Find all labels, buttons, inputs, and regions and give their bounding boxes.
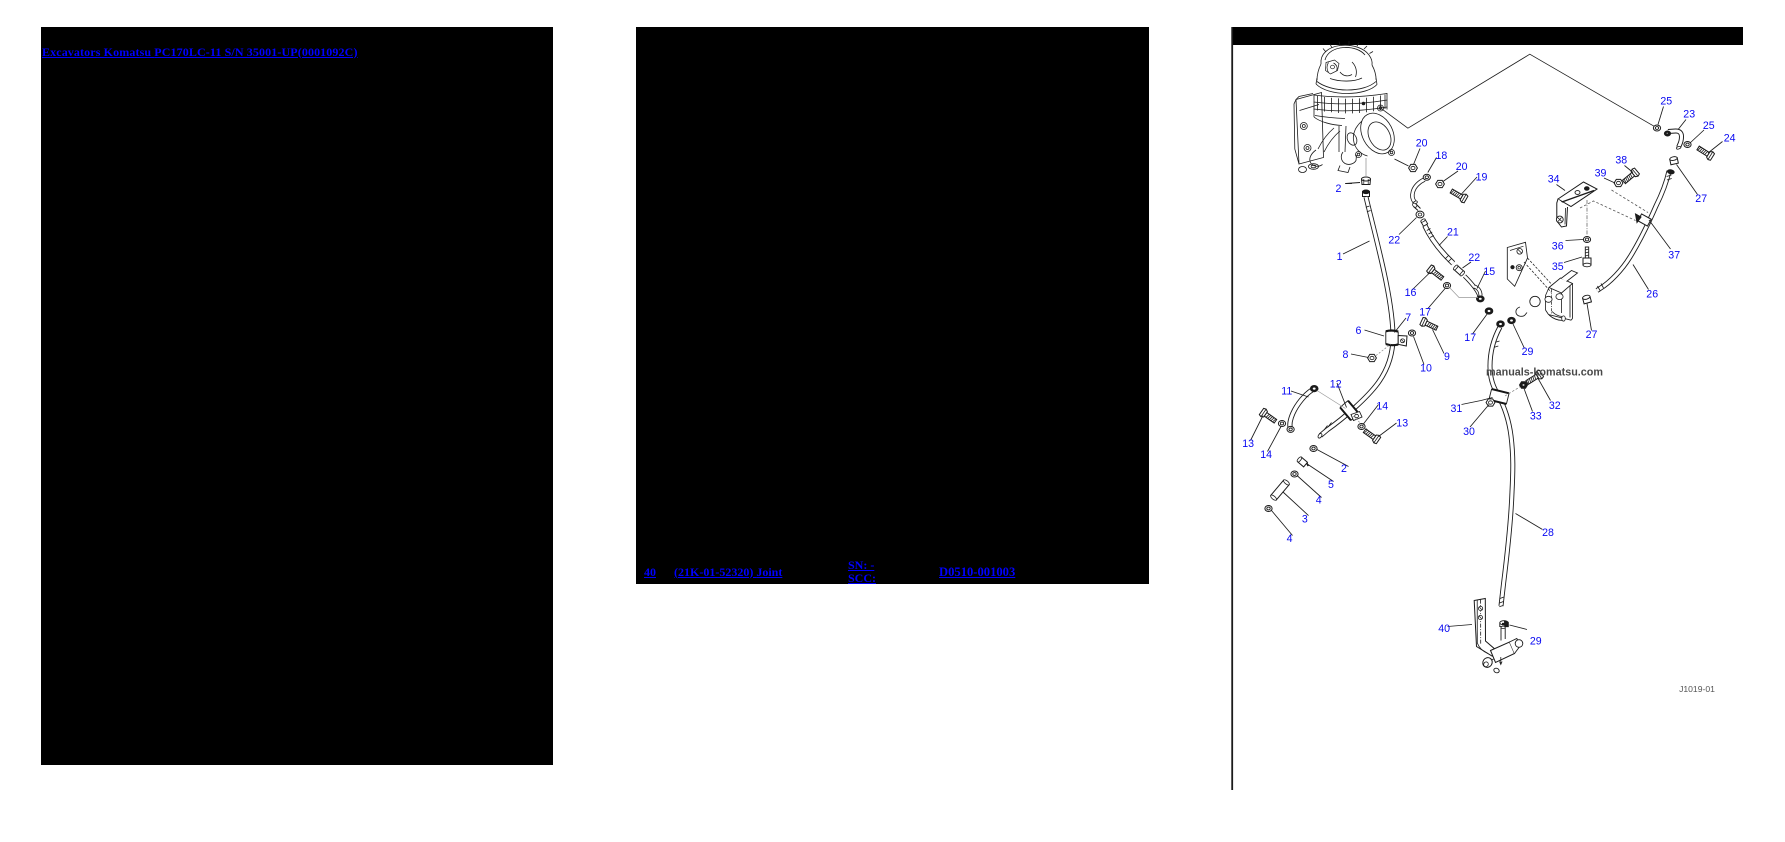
dashed line bracket 34 to tube clamp [1580, 190, 1648, 221]
leader 18 [1428, 158, 1437, 173]
leader 29 bottom [1510, 625, 1528, 630]
leader 40 [1448, 625, 1473, 627]
bolt 24 [1696, 144, 1715, 161]
svg-text:4: 4 [1287, 533, 1293, 545]
leader 12 [1337, 383, 1347, 408]
leader 27 lower [1587, 304, 1592, 331]
bolt 32 [1525, 370, 1544, 387]
middle frame row: part number link [674, 566, 782, 578]
svg-text:39: 39 [1595, 168, 1607, 180]
bolt 13 right [1362, 427, 1381, 444]
tube 3 [1270, 479, 1290, 501]
tube 26 top wrap [1667, 169, 1674, 174]
cap 27 right [1669, 156, 1678, 165]
middle frame black panel [636, 27, 1149, 584]
svg-text:36: 36 [1552, 241, 1564, 253]
hose 1 [1321, 197, 1394, 436]
bolt 30 hex on clamp [1486, 399, 1495, 406]
tube 26 end ticks [1598, 284, 1604, 291]
elbow 23 [1668, 131, 1682, 147]
svg-text:29: 29 [1522, 346, 1534, 358]
line hose 11 to clamp 12 [1317, 391, 1346, 409]
ring 4 lower [1265, 506, 1272, 512]
clamp holder lower tube [1549, 312, 1563, 321]
engine runner left branch [1318, 128, 1340, 152]
hose 21 top fitting [1420, 218, 1427, 226]
leader 19 [1462, 177, 1478, 194]
svg-text:30: 30 [1463, 426, 1475, 438]
svg-text:17: 17 [1419, 307, 1431, 319]
svg-text:15: 15 [1483, 266, 1495, 278]
hose 28 tip hatches [1499, 597, 1504, 607]
svg-text:6: 6 [1356, 325, 1362, 337]
clamp 12 axis dotted [1353, 416, 1372, 434]
svg-text:14: 14 [1376, 400, 1388, 412]
svg-text:22: 22 [1468, 252, 1480, 264]
left frame title links [42, 46, 358, 59]
bolt 9 [1420, 317, 1439, 333]
svg-text:40: 40 [1438, 623, 1450, 635]
leader 4 upper [1297, 476, 1322, 498]
middle frame row: item number 40 [644, 566, 656, 578]
svg-text:26: 26 [1646, 288, 1658, 300]
clamp holder bores [1530, 296, 1540, 306]
bolt 8 to clamp dotted line [1376, 344, 1391, 356]
svg-text:19: 19 [1476, 172, 1488, 184]
fitting 27 lower [1582, 294, 1591, 303]
leader 20 right [1443, 171, 1458, 182]
hose 1 top fitting [1363, 190, 1370, 197]
svg-text:32: 32 [1549, 400, 1561, 412]
hose 28 upper ticks [1494, 341, 1499, 347]
elbow near clamp holder [1474, 287, 1481, 296]
nut 20 left [1409, 164, 1418, 171]
svg-text:10: 10 [1420, 362, 1432, 374]
nut 39 [1614, 179, 1623, 186]
svg-text:27: 27 [1695, 193, 1707, 205]
leader 37 [1649, 220, 1671, 249]
svg-text:manuals-komatsu.com: manuals-komatsu.com [1486, 367, 1603, 379]
ring 29 upper (dark) [1508, 317, 1516, 323]
tube 37 clamp band [1638, 214, 1651, 226]
engine to nut 20 line [1395, 159, 1409, 166]
leader 2 lower [1317, 450, 1349, 467]
bracket 34 foot bolt [1556, 216, 1563, 223]
svg-text:7: 7 [1405, 312, 1411, 324]
engine assembly outline [1294, 41, 1401, 173]
bracket 34 holes [1575, 191, 1580, 195]
svg-text:35: 35 [1552, 261, 1564, 273]
clamp holder assembly plate [1507, 242, 1527, 286]
clamp 6 band [1386, 331, 1398, 346]
hose 1 end opening [1317, 433, 1322, 439]
nut 17 lower (dark) [1485, 308, 1493, 314]
svg-text:1: 1 [1337, 251, 1343, 263]
leader 23 [1679, 120, 1687, 130]
leader 6 [1365, 330, 1385, 336]
ring 25 left [1653, 125, 1660, 131]
ring 2 lower [1310, 446, 1317, 452]
leader 16 [1412, 272, 1431, 291]
leader 25 left [1658, 107, 1664, 125]
line nut 17 to hose 15 [1450, 288, 1479, 298]
svg-text:18: 18 [1436, 150, 1448, 162]
svg-text:34: 34 [1548, 174, 1560, 186]
clamp 12 band [1340, 401, 1359, 421]
engine throttle bore [1354, 107, 1401, 159]
nut 14 left [1278, 421, 1285, 427]
leader 26 [1633, 265, 1649, 290]
nut 10 [1408, 330, 1415, 336]
nut 36 [1583, 237, 1590, 243]
plug 2 [1362, 177, 1371, 185]
elbow 18 [1412, 180, 1424, 203]
leader 29 upper [1513, 324, 1525, 349]
nut 29 bottom (dark) [1500, 621, 1508, 627]
bolt 8 hex [1368, 354, 1377, 361]
svg-text:25: 25 [1660, 95, 1672, 107]
vertical line bracket to nut 36 [1586, 200, 1588, 236]
leader 11 [1291, 391, 1309, 397]
hose 15 [1465, 276, 1480, 297]
leader 30 [1470, 405, 1489, 428]
clamp 31 axis dashed [1505, 372, 1545, 397]
leader 4 lower [1272, 511, 1293, 536]
diagram left border line [1231, 27, 1233, 790]
svg-text:16: 16 [1405, 287, 1417, 299]
left frame black panel [41, 27, 553, 765]
clamp 6 tab [1398, 336, 1407, 347]
hose 28 [1490, 327, 1513, 606]
nut 33 [1520, 382, 1528, 389]
leader 8 [1351, 354, 1369, 358]
leader 13 right [1379, 423, 1397, 437]
svg-text:21: 21 [1447, 227, 1459, 239]
svg-text:J1019-01: J1019-01 [1679, 684, 1715, 694]
leader 38 [1625, 166, 1634, 173]
engine left block [1296, 93, 1324, 165]
leader 28 [1516, 514, 1543, 530]
elbow 18 end cap [1413, 200, 1418, 205]
svg-text:24: 24 [1724, 132, 1736, 144]
joint 29 body [1481, 626, 1523, 674]
leader 5 [1307, 464, 1334, 482]
frame leader roof line [1381, 54, 1655, 128]
clamp holder box [1549, 278, 1573, 293]
leader 21 [1439, 237, 1448, 246]
part number labels [1242, 95, 1735, 647]
svg-text:17: 17 [1464, 332, 1476, 344]
fitting 22 lower (sleeve) [1453, 264, 1466, 276]
nut 17 upper [1443, 283, 1450, 289]
diagram top black bar [1232, 27, 1743, 45]
leader 15 [1477, 271, 1486, 289]
leader 14 right [1363, 405, 1379, 425]
hose 1 top ticks [1366, 206, 1371, 212]
leader 31 [1462, 398, 1493, 405]
leader 24 [1708, 142, 1723, 154]
bolt 16 [1426, 264, 1445, 282]
bracket 40 [1474, 599, 1505, 659]
leader 14 left [1268, 427, 1282, 452]
hose 21 [1425, 226, 1453, 264]
bolt 38 [1621, 167, 1640, 185]
leader 33 [1524, 389, 1533, 412]
bolt 19 [1449, 187, 1468, 203]
svg-text:20: 20 [1456, 161, 1468, 173]
svg-text:22: 22 [1388, 235, 1400, 247]
middle frame row: D code link [939, 566, 1015, 578]
engine bolt rings [1378, 105, 1384, 111]
leader 3 [1283, 492, 1309, 516]
elbow 18 top ring [1423, 174, 1430, 180]
tube 26 [1597, 171, 1669, 291]
svg-text:9: 9 [1444, 351, 1450, 363]
ring 4 upper [1291, 471, 1298, 477]
leader 35 [1564, 257, 1582, 263]
svg-text:23: 23 [1683, 108, 1695, 120]
ring 25 right [1684, 142, 1691, 148]
leader 22 lower [1463, 262, 1472, 268]
bolt 35 vertical [1583, 247, 1591, 267]
hose 11 [1290, 390, 1312, 428]
nut 14 right [1358, 424, 1365, 430]
leader label 2 upper [1346, 183, 1360, 184]
svg-text:12: 12 [1330, 379, 1342, 391]
leader 39 [1604, 178, 1615, 183]
svg-text:33: 33 [1530, 411, 1542, 423]
bracket 34 leg [1557, 199, 1568, 227]
leader 25 right [1690, 130, 1704, 143]
clamp 12 tab [1351, 412, 1362, 421]
hose 28 top ring [1497, 321, 1505, 327]
leader 2 upper text line [1345, 183, 1352, 185]
elbow 23 dark ring [1664, 131, 1670, 136]
svg-text:31: 31 [1451, 403, 1463, 415]
leader 36 [1566, 240, 1584, 241]
svg-text:8: 8 [1343, 349, 1349, 361]
svg-text:3: 3 [1302, 513, 1308, 525]
svg-text:28: 28 [1542, 527, 1554, 539]
clamp holder strip [1524, 258, 1556, 293]
leader 22 upper [1399, 218, 1417, 235]
svg-text:29: 29 [1530, 635, 1542, 647]
leader 10 [1414, 337, 1425, 365]
clamp holder hook [1516, 307, 1527, 316]
hose 21 ticks [1427, 229, 1452, 263]
svg-text:37: 37 [1668, 249, 1680, 261]
svg-text:14: 14 [1260, 449, 1272, 461]
engine mid drum [1314, 93, 1387, 117]
leader 17 upper [1428, 288, 1446, 309]
leader 17 lower [1473, 314, 1488, 335]
clamp 31 band [1489, 389, 1509, 404]
svg-text:5: 5 [1328, 479, 1334, 491]
svg-text:27: 27 [1586, 329, 1598, 341]
svg-text:11: 11 [1281, 385, 1292, 397]
leader 34 [1557, 185, 1566, 191]
bracket 34 top plate [1558, 182, 1597, 207]
svg-text:13: 13 [1242, 438, 1254, 450]
svg-text:4: 4 [1316, 495, 1322, 507]
leader 13 left [1251, 416, 1264, 441]
vertical light leader engine to plug 2 [1365, 158, 1367, 176]
middle frame row: SN/SCC cell [848, 559, 876, 586]
hose 15 end ring [1477, 296, 1485, 302]
svg-text:25: 25 [1703, 120, 1715, 132]
leader 9 [1433, 330, 1445, 354]
leader 20 left [1414, 149, 1421, 165]
bolt 13 left [1259, 408, 1278, 425]
elbow 5 [1296, 456, 1309, 469]
svg-text:13: 13 [1396, 417, 1408, 429]
leader 7 [1395, 318, 1407, 333]
leader 1 [1343, 241, 1370, 254]
engine runner center [1339, 126, 1346, 152]
svg-text:38: 38 [1615, 155, 1627, 167]
svg-text:2: 2 [1341, 463, 1347, 475]
engine bottom tab [1338, 166, 1350, 173]
svg-text:2: 2 [1335, 183, 1341, 195]
svg-text:20: 20 [1416, 138, 1428, 150]
leader 27 right [1677, 165, 1698, 195]
leader 32 [1538, 378, 1551, 401]
hose 11 end fittings [1310, 386, 1318, 392]
banjo fitting 22 upper [1412, 202, 1424, 218]
nut 20 right [1436, 180, 1445, 187]
hose 1 end hatch ticks [1324, 423, 1332, 431]
